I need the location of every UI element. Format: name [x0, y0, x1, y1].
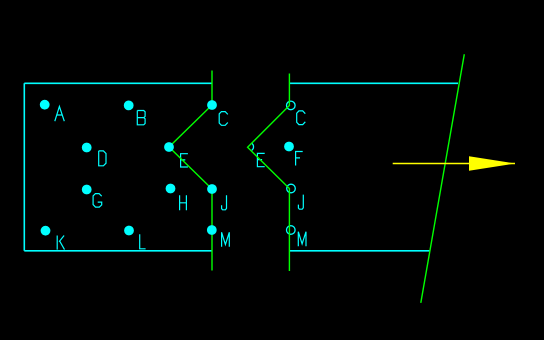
wire: long green boundary line	[421, 54, 465, 303]
node E (right, open grip, mostly hidden behind green vertex)	[251, 143, 253, 150]
node label J (right)	[298, 195, 303, 210]
node J	[207, 184, 217, 194]
node label E (left)	[181, 154, 188, 167]
wire: left object bottom edge	[24, 250, 212, 252]
node C	[207, 100, 217, 110]
node G	[82, 185, 92, 195]
wire: left object left edge	[23, 83, 25, 251]
node label C (right)	[297, 111, 306, 125]
wire: left object highlighted right zigzag (green)	[169, 71, 212, 271]
node E	[164, 142, 174, 152]
node M (right, open grip)	[287, 226, 296, 235]
node F	[284, 142, 294, 152]
yellow arrow head	[469, 156, 515, 171]
wire: right object bottom edge	[290, 250, 430, 252]
node K	[41, 226, 51, 236]
node H	[166, 184, 176, 194]
wire: yellow arrow shaft	[393, 163, 515, 165]
node M	[207, 225, 217, 235]
wire: right object zigzag (green)	[248, 74, 290, 272]
node A	[40, 100, 50, 110]
node label M (right)	[298, 232, 306, 247]
node D	[82, 143, 92, 153]
node label E (right)	[257, 153, 264, 166]
node B	[124, 101, 134, 111]
wire: right object top edge	[290, 82, 459, 84]
node J (right, open grip)	[287, 184, 296, 193]
node C (right, open grip)	[287, 101, 296, 110]
wire: left object top edge	[24, 82, 212, 84]
node L	[124, 226, 134, 236]
